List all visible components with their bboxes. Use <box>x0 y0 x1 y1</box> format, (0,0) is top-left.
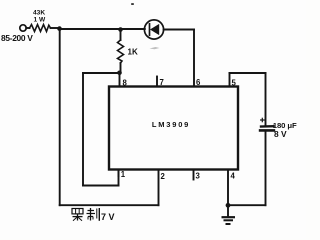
node B junction dot <box>118 27 123 32</box>
wire capacitor C1 to bottom <box>265 131 267 205</box>
capacitor C1 plates <box>259 126 275 130</box>
ground stem <box>227 205 229 217</box>
svg-text:1: 1 <box>121 170 126 179</box>
wire left branch vertical <box>82 73 84 186</box>
svg-text:LM3909: LM3909 <box>152 120 190 129</box>
wire pin 2 down <box>158 169 160 205</box>
svg-text:7: 7 <box>160 78 164 87</box>
svg-text:8: 8 <box>123 79 128 88</box>
wire left vertical from node A down <box>59 28 61 205</box>
annotation text CJK char 2 <box>87 208 100 221</box>
svg-text:4: 4 <box>231 172 236 181</box>
svg-text:5: 5 <box>232 79 237 88</box>
wire pin 5 to right branch <box>230 72 266 74</box>
svg-text:7 V: 7 V <box>101 212 115 222</box>
ground bars <box>222 217 236 224</box>
resistor R2 1K <box>118 40 124 63</box>
wire bottom rail to pin 2 <box>60 204 159 206</box>
ink speck <box>131 3 134 5</box>
annotation text CJK char 1 <box>72 209 83 221</box>
svg-text:6: 6 <box>196 78 201 87</box>
wire up to pin 1 <box>118 169 120 186</box>
wire node A to lamp (top rail) <box>59 28 145 30</box>
svg-text:2: 2 <box>161 172 166 181</box>
node C junction dot <box>117 71 122 76</box>
wire left branch horizontal to pin 1 <box>83 185 119 187</box>
node A junction dot <box>57 26 62 31</box>
svg-text:1K: 1K <box>128 48 138 57</box>
wire node C to pin 8 <box>119 73 121 87</box>
input terminal circle <box>20 25 26 31</box>
lamp cathode bar <box>149 24 151 35</box>
lamp diode triangle <box>150 24 159 35</box>
smudge under lamp <box>150 47 160 49</box>
wire R2 to node C <box>120 63 122 73</box>
IC U1 LM3909 body <box>109 87 238 170</box>
resistor R1 43K 1W <box>30 25 51 32</box>
pin 1 stub <box>118 169 120 176</box>
wire bottom right rail <box>228 204 266 206</box>
ground node junction dot <box>226 203 231 208</box>
svg-text:8 V: 8 V <box>274 129 287 139</box>
svg-text:85-200 V: 85-200 V <box>1 33 33 43</box>
pin 7 stub <box>156 77 158 88</box>
wire terminal to resistor R1 <box>26 27 29 29</box>
wire node C to left branch <box>83 72 120 74</box>
wire right branch to capacitor C1 <box>265 73 267 126</box>
wire pin 4 down to ground node <box>227 169 229 205</box>
pin 5 riser <box>229 73 231 87</box>
neon lamp DS1 circle <box>144 20 163 39</box>
wire lamp to corner <box>164 29 194 31</box>
svg-text:1 W: 1 W <box>34 17 46 24</box>
wire corner down to pin 6 <box>193 30 195 88</box>
svg-text:3: 3 <box>196 172 201 181</box>
svg-text:43K: 43K <box>33 10 45 17</box>
capacitor C1 plus sign <box>260 118 265 123</box>
pin 3 stub <box>193 169 195 180</box>
wire R1 to node A <box>51 27 60 29</box>
wire node B to resistor R2 <box>120 29 122 40</box>
